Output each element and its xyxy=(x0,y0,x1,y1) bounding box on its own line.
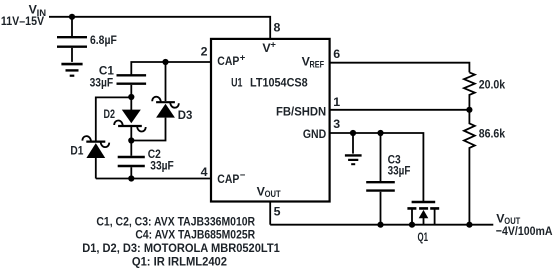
label CAP+ pin2 xyxy=(217,53,246,69)
svg-text:C1: C1 xyxy=(99,65,115,77)
svg-text:8: 8 xyxy=(274,21,281,35)
svg-text:86.6k: 86.6k xyxy=(479,129,506,141)
junction C2 bottom xyxy=(128,175,134,181)
svg-text:Q1: Q1 xyxy=(418,232,429,244)
resistor R2 86.6k xyxy=(464,110,506,225)
svg-text:11V–15V: 11V–15V xyxy=(1,14,45,28)
svg-text:2: 2 xyxy=(201,45,208,59)
capacitor C3 33uF xyxy=(366,133,410,225)
svg-text:OUT: OUT xyxy=(265,189,281,200)
capacitor C1 33uF xyxy=(90,65,147,97)
junction D3 top xyxy=(162,59,168,65)
junction VIN/C4 xyxy=(69,14,75,20)
wire CAP- rail pin4 xyxy=(96,178,211,180)
label VOUT pin5 xyxy=(257,184,281,200)
svg-text:D1: D1 xyxy=(70,146,84,158)
wire pin 6 VREF xyxy=(330,63,470,73)
svg-text:CAP: CAP xyxy=(217,54,239,68)
junction divider bottom xyxy=(466,222,472,228)
svg-text:D1, D2, D3: MOTOROLA MBR0520LT: D1, D2, D3: MOTOROLA MBR0520LT1 xyxy=(82,241,280,255)
svg-text:FB/SHDN: FB/SHDN xyxy=(276,104,326,118)
svg-text:−: − xyxy=(240,170,246,181)
svg-text:1: 1 xyxy=(333,95,340,109)
svg-text:−4V/100mA: −4V/100mA xyxy=(496,224,553,238)
svg-text:D3: D3 xyxy=(178,110,193,122)
junction Q1 source xyxy=(409,222,415,228)
svg-text:20.0k: 20.0k xyxy=(479,80,506,92)
diode D1 xyxy=(70,136,109,178)
label CAP- pin4 xyxy=(217,170,246,186)
svg-text:+: + xyxy=(240,53,246,64)
wire pin 5 VOUT stub xyxy=(269,202,271,225)
label V+ xyxy=(262,39,276,55)
junction C3 bottom xyxy=(377,222,383,228)
junction FB divider xyxy=(466,107,472,113)
svg-text:33µF: 33µF xyxy=(388,166,411,178)
junction C3 xyxy=(377,130,383,136)
svg-text:CAP: CAP xyxy=(217,172,239,186)
svg-text:+: + xyxy=(270,39,276,50)
svg-text:5: 5 xyxy=(274,205,281,219)
node VIN label xyxy=(1,3,46,29)
svg-text:D2: D2 xyxy=(104,109,116,121)
svg-text:6: 6 xyxy=(333,47,340,61)
wire VIN top rail to pin 8 xyxy=(49,17,270,39)
svg-text:33µF: 33µF xyxy=(90,78,114,90)
junction gnd xyxy=(350,130,356,136)
diode D2 xyxy=(104,97,146,141)
IC U1 LT1054CS8 body xyxy=(211,39,330,202)
capacitor C4 6.8uF xyxy=(57,17,117,62)
resistor R1 20.0k xyxy=(464,72,506,109)
capacitor C2 33uF xyxy=(118,141,174,179)
svg-text:Q1: IR IRLML2402: Q1: IR IRLML2402 xyxy=(132,254,227,268)
transistor Q1 IRLML2402 xyxy=(407,202,439,244)
label VREF xyxy=(302,54,325,70)
svg-text:4: 4 xyxy=(201,165,208,179)
svg-text:GND: GND xyxy=(303,127,326,141)
wire output rail xyxy=(270,224,493,226)
junction D2/D3/C2 xyxy=(128,137,134,143)
ground (input) xyxy=(61,64,82,76)
svg-text:U1: U1 xyxy=(231,76,242,90)
svg-text:C2: C2 xyxy=(148,149,161,161)
label U1 LT1054CS8 xyxy=(231,76,308,90)
wire branch to D1 xyxy=(96,97,132,140)
svg-text:6.8µF: 6.8µF xyxy=(90,35,117,47)
parts list text xyxy=(82,214,280,268)
svg-text:C1, C2, C3: AVX TAJB336M010R: C1, C2, C3: AVX TAJB336M010R xyxy=(96,214,255,228)
svg-text:33µF: 33µF xyxy=(150,161,174,173)
svg-text:LT1054CS8: LT1054CS8 xyxy=(250,76,308,90)
svg-text:REF: REF xyxy=(310,59,325,70)
node VOUT label xyxy=(496,212,553,239)
wire pin 2 CAP+ xyxy=(131,62,211,75)
wire pin 3 GND to gate xyxy=(330,133,424,201)
diode D3 xyxy=(131,62,192,141)
svg-text:C4: AVX TAJB685M025R: C4: AVX TAJB685M025R xyxy=(135,228,255,242)
wire pin 1 FB/SHDN xyxy=(330,109,470,111)
junction C1/D2/D1 xyxy=(128,94,134,100)
svg-text:3: 3 xyxy=(333,117,340,131)
ground (GND pin) xyxy=(345,133,362,164)
